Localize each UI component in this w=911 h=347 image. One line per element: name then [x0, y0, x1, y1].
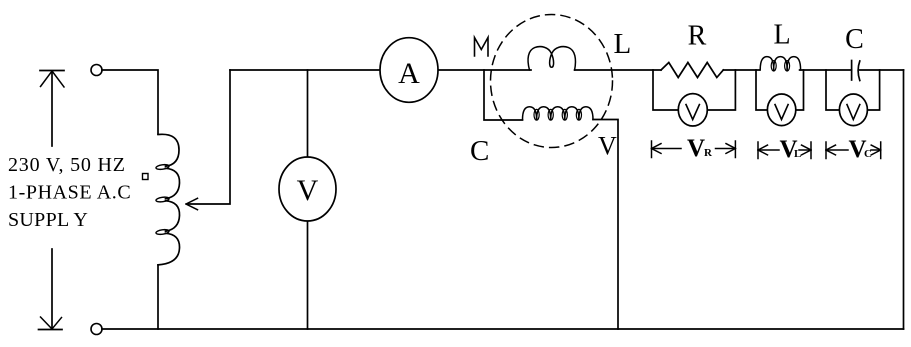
inductor L [760, 57, 800, 71]
label L [773, 19, 790, 50]
voltmeter V branch wire [307, 70, 309, 157]
VL dimension arrow [758, 142, 811, 159]
svg-text:A: A [398, 57, 420, 90]
wattmeter dashed circle [491, 15, 613, 148]
terminal bottom-left [91, 324, 102, 335]
wire top terminal to variac [102, 70, 158, 134]
svg-text:V: V [687, 135, 705, 162]
VC dimension arrow [826, 142, 881, 159]
wattmeter pressure coil branch [484, 70, 523, 120]
svg-text:230 V, 50 HZ: 230 V, 50 HZ [8, 154, 126, 176]
svg-text:C: C [864, 148, 872, 160]
ammeter A [380, 38, 438, 103]
variac wiper arrow [186, 70, 230, 210]
capacitor C [852, 61, 860, 81]
voltmeter VL [767, 94, 795, 126]
R parallel voltmeter loop [653, 70, 735, 110]
wire variac bottom to bus [157, 265, 159, 329]
svg-text:L: L [614, 28, 632, 60]
svg-text:R: R [704, 147, 713, 159]
voltmeter V [279, 157, 336, 221]
small square mark [143, 174, 149, 180]
variac T1 coil [156, 134, 180, 265]
label R [688, 21, 707, 52]
svg-text:V: V [297, 174, 319, 207]
svg-text:L: L [794, 148, 801, 160]
label C [845, 24, 864, 55]
bottom bus wire [102, 328, 904, 330]
wattmeter terminal labels M L C V [475, 38, 489, 57]
L parallel voltmeter loop [756, 70, 804, 110]
svg-text:V: V [598, 131, 617, 160]
voltmeter VR [678, 94, 707, 126]
svg-text:C: C [845, 24, 864, 55]
right bus wire [903, 70, 905, 329]
VR dimension arrow [652, 141, 736, 158]
supply label text [8, 154, 131, 231]
svg-text:R: R [688, 21, 707, 52]
terminal top-left [91, 65, 102, 76]
svg-text:SUPPL Y: SUPPL Y [8, 209, 88, 231]
svg-text:1-PHASE A.C: 1-PHASE A.C [8, 182, 131, 204]
resistor R [661, 63, 723, 78]
voltmeter VC [839, 94, 867, 126]
wattmeter current coil [528, 47, 575, 70]
svg-text:C: C [470, 135, 489, 167]
C parallel voltmeter loop [826, 70, 880, 110]
svg-text:L: L [773, 19, 790, 50]
supply dimension arrow [39, 71, 65, 330]
main top wire [230, 69, 904, 71]
